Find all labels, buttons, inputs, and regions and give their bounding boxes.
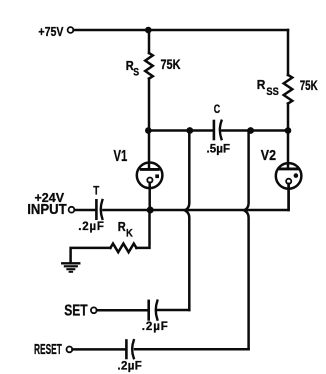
resistor RK — [110, 244, 136, 253]
tube V2 — [276, 163, 302, 189]
wire RK top lead — [136, 210, 149, 248]
svg-text:K: K — [126, 228, 133, 240]
terminal RESET — [67, 347, 73, 353]
wire RK to ground — [71, 248, 111, 262]
svg-text:75K: 75K — [300, 77, 318, 93]
tube V1 — [137, 163, 163, 189]
svg-text:T: T — [93, 183, 100, 197]
wire RS bottom lead — [148, 79, 151, 131]
wire anode bus right — [222, 129, 288, 132]
wire anode bus left — [149, 129, 214, 132]
terminal INPUT — [69, 207, 75, 213]
node anode V1 — [145, 127, 152, 134]
capacitor T — [96, 200, 102, 219]
wire input to cap T — [75, 209, 96, 212]
wire reset riser with hop — [244, 131, 248, 350]
capacitor set .2uF — [149, 301, 158, 320]
svg-text:.2µF: .2µF — [142, 321, 169, 333]
capacitor reset .2uF — [126, 340, 133, 358]
wire cap T to cathode node — [103, 209, 149, 212]
svg-text:+75V: +75V — [38, 25, 64, 39]
terminal SET — [91, 307, 97, 313]
wire V2 anode lead — [287, 131, 290, 169]
node cathode V1 — [147, 207, 154, 214]
wire cathode bus — [149, 184, 289, 210]
wire set to cap — [97, 309, 148, 312]
label RK — [118, 219, 133, 239]
svg-text:INPUT: INPUT — [27, 202, 67, 218]
wire set cap to riser — [158, 309, 190, 312]
svg-text:V1: V1 — [114, 148, 128, 165]
svg-text:R: R — [257, 77, 266, 92]
label RS — [126, 58, 139, 79]
label RSS — [257, 77, 279, 98]
wire RSS top lead — [287, 30, 290, 75]
svg-text:.5µF: .5µF — [207, 143, 231, 155]
node rail-RS junction — [145, 27, 152, 34]
svg-text:RESET: RESET — [34, 342, 62, 358]
wire V1 anode lead — [148, 131, 151, 169]
capacitor C — [214, 121, 222, 140]
wire +75V rail — [74, 29, 288, 32]
svg-text:C: C — [214, 104, 220, 116]
svg-text:.2µF: .2µF — [78, 221, 104, 233]
svg-text:S: S — [133, 67, 139, 79]
wire V2 cathode lead — [287, 184, 290, 210]
ground — [62, 263, 79, 272]
wire reset to cap — [73, 348, 126, 351]
wire RS top lead — [148, 30, 151, 53]
node set coupling — [186, 127, 193, 134]
node reset coupling — [247, 127, 254, 134]
wire RSS bottom lead — [287, 104, 290, 131]
node anode V2 — [285, 127, 292, 134]
svg-text:75K: 75K — [161, 56, 181, 72]
terminal +75V — [68, 27, 74, 33]
svg-text:SET: SET — [64, 303, 88, 320]
wire V1 cathode lead — [148, 183, 151, 210]
resistor RSS — [284, 75, 293, 104]
svg-text:.2µF: .2µF — [117, 361, 142, 373]
resistor RS — [145, 53, 153, 79]
wire reset cap to riser — [135, 348, 249, 351]
wire set riser with hop — [185, 131, 189, 311]
svg-text:V2: V2 — [261, 147, 276, 164]
svg-text:SS: SS — [266, 86, 278, 98]
